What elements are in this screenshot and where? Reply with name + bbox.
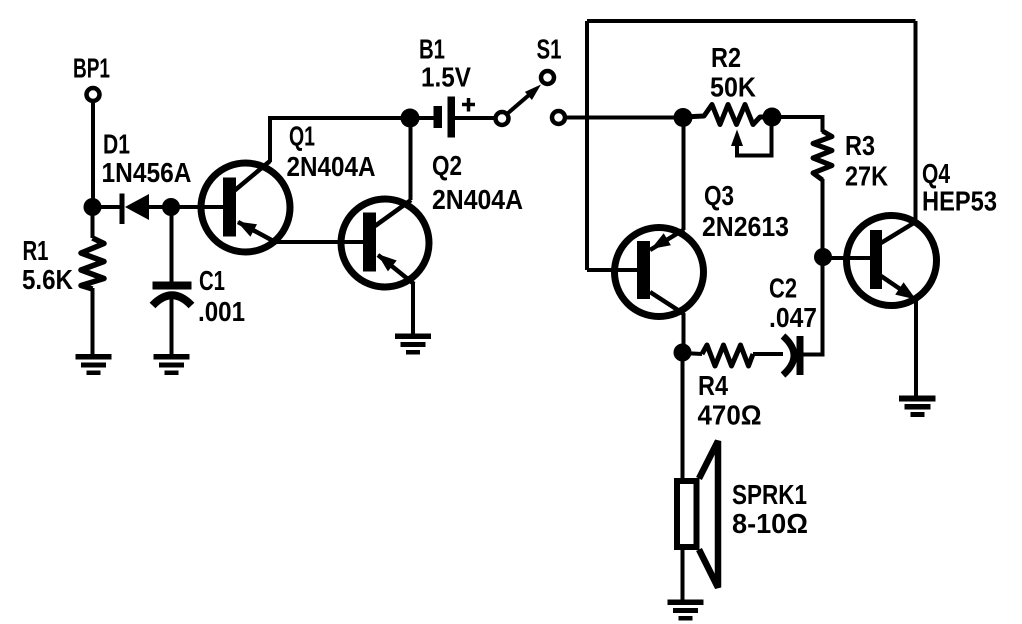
capacitor C2 right plate [797, 336, 804, 375]
battery plus sign [462, 98, 475, 112]
wire left vertical (top rail to Q3 base) [585, 21, 589, 270]
diode D1 arrow [125, 194, 149, 220]
wire node A to D1 cathode [92, 205, 122, 209]
svg-text:.047: .047 [769, 302, 817, 333]
switch S1 blade [508, 89, 537, 114]
wire right vertical (top rail to Q4 collector) [914, 21, 918, 222]
wire D1 to node B [149, 205, 171, 209]
transistor Q4 [847, 216, 937, 306]
wire Q1 emitter to Q2 base [275, 240, 364, 244]
switch S1 right terminal [552, 111, 565, 124]
R2 wiper arrow [731, 130, 743, 147]
svg-text:470Ω: 470Ω [698, 400, 762, 431]
wire Q1 collector rail to node C [268, 116, 410, 120]
resistor R4 [702, 345, 753, 366]
wire R3 to node F [821, 179, 825, 257]
wire Q2 collector up to node C [409, 118, 413, 200]
svg-text:1N456A: 1N456A [102, 157, 192, 188]
node D junction (S1/R2/Q3 emitter) [674, 108, 693, 127]
wire node C to B1 [410, 116, 434, 120]
wire node F down to C2 [803, 257, 823, 355]
ground (speaker) [668, 600, 704, 621]
speaker SPRK1 frame [677, 481, 697, 547]
svg-text:C2: C2 [769, 273, 797, 304]
ground (Q4) [899, 396, 936, 418]
wire node E to R3 [772, 117, 823, 132]
ground (R1) [76, 354, 112, 375]
svg-text:R2: R2 [711, 42, 741, 73]
capacitor C1 curved plate [153, 295, 192, 305]
wire Q3 base from left vertical [587, 268, 638, 272]
svg-text:C1: C1 [199, 265, 225, 296]
wire top rail [587, 19, 916, 23]
wire R1 to ground [91, 288, 95, 356]
resistor R1 [81, 238, 104, 289]
node A junction (BP1/D1/R1) [84, 198, 102, 216]
svg-text:50K: 50K [710, 72, 756, 103]
wire node B to Q1 base [171, 205, 224, 209]
R2 wiper wire [737, 121, 772, 156]
svg-text:R3: R3 [845, 130, 875, 161]
svg-text:SPRK1: SPRK1 [732, 479, 807, 510]
node C junction (Q1 C/Q2 C/B1) [401, 109, 420, 128]
svg-text:5.6K: 5.6K [22, 264, 73, 295]
node E junction (R2 right) [763, 108, 782, 127]
ground (C1) [154, 354, 190, 375]
wire speaker to ground [681, 547, 685, 602]
wire node G to speaker [681, 352, 685, 481]
wire C2 to R4 [753, 352, 783, 356]
svg-text:Q4: Q4 [922, 158, 950, 189]
wire Q4 base from node F [823, 256, 871, 260]
potentiometer R2 [683, 105, 772, 125]
transistor Q3 [615, 228, 704, 317]
svg-text:Q1: Q1 [289, 121, 315, 152]
svg-text:8-10Ω: 8-10Ω [732, 508, 808, 539]
transistor Q2 [341, 199, 429, 287]
capacitor C2 curved plate [783, 336, 794, 375]
speaker SPRK1 cone [699, 441, 718, 588]
svg-text:Q2: Q2 [432, 150, 462, 181]
wire B1 to S1 [455, 116, 496, 120]
node F junction (R3/Q4 base/C2) [814, 248, 832, 266]
svg-text:D1: D1 [103, 129, 130, 160]
wire C1 to ground [170, 297, 174, 356]
diode D1 cathode bar [120, 194, 125, 225]
wire Q4 emitter to ground [914, 298, 918, 398]
svg-text:Q3: Q3 [704, 180, 734, 211]
battery B1 positive plate [448, 97, 456, 138]
svg-text:.001: .001 [198, 296, 245, 327]
svg-text:27K: 27K [845, 161, 888, 192]
switch S1 arrowhead [525, 85, 541, 101]
ground (Q2) [395, 334, 431, 355]
resistor R3 [813, 131, 832, 180]
svg-text:BP1: BP1 [73, 53, 110, 84]
wire R4 to node G [683, 353, 702, 354]
svg-text:2N404A: 2N404A [432, 184, 523, 215]
svg-text:HEP53: HEP53 [922, 186, 997, 217]
svg-text:2N2613: 2N2613 [702, 211, 789, 242]
svg-text:S1: S1 [537, 34, 562, 65]
battery B1 negative plate [434, 106, 443, 128]
wire Q3 collector down to node G [682, 313, 686, 353]
wire BP1 to node A [91, 103, 95, 207]
binding post BP1 [87, 88, 100, 101]
svg-text:R4: R4 [698, 370, 728, 401]
wire node A to R1 [91, 207, 95, 238]
svg-text:B1: B1 [419, 34, 445, 65]
node G junction (Q3 collector/R4/speaker) [674, 344, 692, 362]
wire node B to C1 [170, 207, 174, 283]
switch S1 pole [496, 112, 509, 125]
capacitor C1 top plate [153, 282, 192, 290]
svg-text:R1: R1 [23, 235, 49, 266]
switch S1 throw terminal [541, 71, 554, 84]
svg-text:1.5V: 1.5V [421, 62, 471, 93]
transistor Q1 [201, 161, 290, 252]
wire Q1 collector up [268, 118, 272, 162]
wire Q2 emitter to ground [411, 283, 415, 336]
node B junction (D1/C1/Q1 base) [162, 198, 180, 216]
wire Q3 emitter up to node D [682, 118, 686, 230]
svg-text:2N404A: 2N404A [287, 151, 376, 182]
wire S1 to node D [565, 116, 676, 120]
